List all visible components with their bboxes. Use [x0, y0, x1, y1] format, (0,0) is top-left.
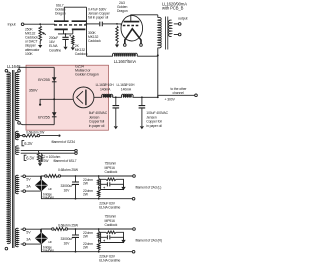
diode D2 BY255: [52, 112, 57, 116]
capacitor 33000uF: [75, 229, 77, 235]
HV secondary top terminal: [18, 69, 21, 72]
capacitor C4 100uF 400VAC: [141, 97, 143, 105]
capacitor C3 8uF 400VAC: [115, 97, 117, 105]
tube V2 2A3 filament terminals: [124, 44, 127, 47]
transformer T1 secondary winding (6.3V a): [15, 131, 18, 139]
terminal (+300V, to other channel): [195, 94, 198, 97]
node (stub end): [39, 104, 41, 106]
svg-text:Caddock: Caddock: [88, 39, 101, 43]
wire (cathode connections): [58, 30, 73, 34]
terminal: [75, 149, 77, 151]
wire (6SL7 heater b): [21, 152, 75, 154]
inductor L1 LL1667 plate choke: [87, 55, 113, 57]
tube V3 GZ34 anode: [85, 90, 87, 106]
tube V2 2A3 plate: [124, 21, 140, 23]
svg-text:Golden Dragon: Golden Dragon: [75, 73, 99, 77]
node (B+ / OPT primary): [157, 54, 159, 56]
ground: [140, 126, 144, 129]
transformer T1 HV secondary (350V): [15, 72, 18, 120]
transformer T1 primary terminal: [5, 69, 8, 72]
wire (B+ rail): [94, 96, 158, 98]
resistor 750ohm MP916 (in box): [101, 179, 124, 189]
wire (plate to coupling cap): [86, 7, 88, 56]
wire (+ rail): [41, 229, 51, 232]
transformer T1 primary bottom terminal: [5, 247, 8, 250]
terminal (filament +): [133, 228, 136, 231]
tube V3 GZ34 envelope: [73, 87, 94, 108]
terminal: [45, 175, 47, 177]
resistor R 0.68ohm 25W: [47, 175, 58, 178]
transformer T2 primary winding: [157, 15, 159, 18]
node: [98, 240, 100, 242]
terminal: [52, 228, 54, 230]
ground: [123, 237, 125, 240]
transformer T1 primary winding: [7, 72, 10, 243]
svg-text:0.68ohm 2W: 0.68ohm 2W: [26, 131, 45, 135]
wire (- rail): [41, 191, 132, 199]
transformer T1 core: [13, 70, 14, 248]
HV secondary bottom terminal: [18, 122, 21, 125]
node: [75, 198, 77, 200]
wire (diode chain): [53, 67, 55, 124]
terminal (filament -): [132, 250, 135, 253]
ground: [38, 163, 42, 166]
svg-text:Cerafine: Cerafine: [49, 48, 61, 52]
node: [86, 23, 88, 25]
wire: [61, 175, 133, 177]
transformer T2 core: [166, 17, 168, 50]
svg-text:filament of GZ34: filament of GZ34: [52, 140, 76, 144]
svg-text:3A: 3A: [26, 238, 31, 242]
svg-text:25M080: 25M080: [42, 196, 54, 200]
svg-text:BY255: BY255: [38, 77, 50, 82]
wire (- rail): [41, 244, 132, 252]
attenuator R1 250K/100K: [39, 26, 42, 41]
svg-text:0.68ohm 25W: 0.68ohm 25W: [58, 168, 79, 172]
input terminal: [21, 23, 24, 26]
svg-text:output: output: [178, 16, 187, 20]
svg-text:HF: HF: [48, 187, 52, 191]
node: [98, 175, 100, 177]
svg-text:ELNA Cerafine: ELNA Cerafine: [99, 206, 120, 210]
node (input/attenuator junction): [39, 23, 41, 25]
svg-text:Input: Input: [8, 23, 17, 27]
tube V2 2A3 grid: [123, 25, 140, 27]
resistor 22ohm 2W (upper): [98, 229, 100, 231]
wire (B+ rail down): [157, 55, 159, 97]
svg-text:100K: 100K: [25, 52, 33, 56]
ground: [123, 184, 125, 187]
terminal: [65, 228, 67, 230]
resistor R3 300K (grid leak): [116, 26, 118, 43]
5V winding terminal: [23, 190, 26, 193]
node (+300V): [157, 96, 159, 98]
terminal: [58, 175, 60, 177]
wire (+300V stub): [158, 95, 195, 97]
6.3V winding bracket (second): [24, 155, 26, 160]
resistor 22ohm 2W (lower): [98, 239, 100, 243]
wire: [87, 23, 100, 25]
svg-text:+ 300V: + 300V: [165, 97, 176, 101]
terminal (filament -): [132, 197, 135, 200]
transformer T1 secondary winding (5V a): [15, 175, 18, 193]
svg-text:with PCB_B: with PCB_B: [162, 6, 184, 11]
svg-text:140mA: 140mA: [121, 87, 132, 91]
transformer T1 secondary winding (5V b): [15, 228, 18, 246]
svg-text:6.3V: 6.3V: [26, 156, 34, 161]
bridge rectifier BR1: [35, 179, 48, 191]
svg-text:350V: 350V: [29, 87, 38, 92]
resistor 22ohm 2W (lower): [98, 186, 100, 190]
resistor R2 2K (cathode): [72, 35, 74, 45]
node: [75, 251, 77, 253]
6.3V winding bracket: [22, 141, 24, 146]
wire (6SL7 plate riser): [64, 7, 86, 21]
svg-text:filament of 2A3 (R): filament of 2A3 (R): [136, 239, 162, 243]
svg-text:LL1667/5mA: LL1667/5mA: [114, 59, 137, 64]
svg-text:16V: 16V: [64, 188, 71, 192]
transformer T1 secondary winding (6.3V b): [15, 146, 18, 155]
node: [141, 96, 143, 98]
bridge rectifier BR2: [35, 232, 48, 244]
wire: [39, 162, 42, 163]
ground: [38, 45, 42, 48]
output terminal: [178, 23, 181, 26]
svg-text:ELNA Cerafine: ELNA Cerafine: [99, 259, 120, 263]
svg-text:filament of 6SL7: filament of 6SL7: [54, 159, 77, 163]
power supply block (pink box): [26, 65, 109, 130]
wire: [21, 190, 41, 192]
tube V1 6SL7 grids: [54, 24, 87, 26]
ground: [71, 47, 75, 50]
heater row (GZ34) winding terminal: [17, 134, 19, 136]
5V winding terminal: [23, 175, 26, 178]
resistor 22ohm 2W (upper): [98, 176, 100, 178]
node (rectifier mid): [53, 98, 55, 100]
svg-text:25M080: 25M080: [42, 249, 54, 253]
tube V3 GZ34 filament: [77, 91, 83, 103]
node: [98, 228, 100, 230]
ground: [114, 126, 118, 129]
resistor 750ohm MP916 (in box): [101, 232, 124, 242]
wire: [117, 24, 121, 26]
wire: [99, 240, 101, 242]
capacitor C1 200uF (cathode bypass): [65, 34, 67, 37]
svg-text:5V: 5V: [26, 231, 31, 235]
ground: [63, 47, 67, 50]
output terminal: [178, 33, 181, 36]
tube V2 2A3 filament: [125, 29, 141, 44]
capacitor 33000uF: [75, 176, 77, 182]
5V winding terminal: [23, 243, 26, 246]
wire (to GZ34): [54, 98, 73, 100]
svg-text:BY255: BY255: [38, 114, 50, 119]
wire (+ rail): [41, 176, 44, 179]
svg-text:filament of 2A3 (L): filament of 2A3 (L): [136, 186, 162, 190]
svg-text:140mA: 140mA: [100, 87, 111, 91]
node: [98, 187, 100, 189]
svg-text:in paper oil: in paper oil: [146, 124, 162, 128]
node: [115, 96, 117, 98]
resistor R6 100ohm hum balance: [41, 153, 43, 154]
node: [98, 198, 100, 200]
svg-text:foil in paper oil: foil in paper oil: [88, 16, 109, 20]
terminal (filament +): [133, 175, 136, 178]
svg-text:0.68ohm 25W: 0.68ohm 25W: [58, 223, 79, 227]
wire: [24, 23, 55, 25]
svg-text:Caddock: Caddock: [75, 52, 88, 56]
svg-text:16V: 16V: [64, 241, 71, 245]
wire (mid stub): [40, 99, 54, 104]
resistor R 0.68ohm 25W: [54, 228, 65, 231]
wire (secondary bottom): [174, 34, 179, 36]
diode D1 BY255: [52, 77, 57, 81]
transformer T2 secondary winding: [168, 20, 171, 37]
svg-text:Caddock: Caddock: [105, 223, 118, 227]
wire: [21, 243, 41, 245]
wire: [103, 23, 117, 25]
svg-text:6.3V: 6.3V: [24, 141, 32, 146]
svg-text:in paper oil: in paper oil: [89, 124, 105, 128]
wire: [99, 187, 101, 189]
svg-text:channel: channel: [173, 91, 185, 95]
inductor L2 LL1638 choke: [102, 94, 113, 97]
svg-text:Dragon: Dragon: [117, 9, 128, 13]
5V winding terminal: [23, 228, 26, 231]
wire: [21, 176, 41, 179]
node: [98, 251, 100, 253]
node: [75, 228, 77, 230]
inductor L3 LL1638 choke: [122, 94, 134, 97]
svg-text:5V: 5V: [26, 178, 31, 182]
tube V1 6SL7 plates: [54, 20, 86, 22]
node (cathode): [65, 33, 67, 35]
terminal: [75, 152, 77, 154]
svg-text:Caddock: Caddock: [105, 170, 118, 174]
tube V1 6SL7 cathodes: [55, 28, 86, 30]
wire (6SL7 heater a): [21, 150, 75, 152]
node (2A3 grid): [116, 23, 118, 25]
resistor R4 0.68ohm 2W: [20, 135, 23, 137]
capacitor 220uF 63V (in box): [101, 236, 107, 238]
svg-text:HF: HF: [48, 240, 52, 244]
capacitor C2 0.47uF coupling: [100, 22, 103, 27]
wire: [21, 229, 41, 232]
node (GZ34 heater): [58, 135, 60, 137]
wire (HV bottom): [20, 123, 54, 126]
tube V2 2A3 envelope: [121, 15, 143, 41]
capacitor 220uF 63V (in box): [101, 183, 107, 185]
svg-text:3A: 3A: [26, 185, 31, 189]
ground: [115, 45, 119, 48]
wire: [68, 228, 133, 230]
wire (secondary top): [174, 23, 179, 25]
resistor R5 100ohm hum balance: [38, 151, 40, 153]
node: [75, 175, 77, 177]
wire (HV top): [19, 67, 54, 69]
wire (2A3 plate riser): [131, 15, 158, 22]
